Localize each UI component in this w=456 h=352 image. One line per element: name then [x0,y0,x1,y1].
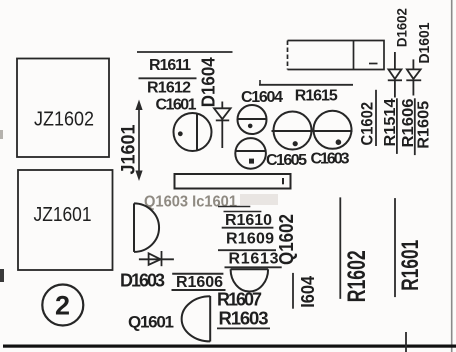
svg-text:JZ1601: JZ1601 [34,204,92,226]
connector JZ1601 [18,170,113,270]
svg-text:R1612: R1612 [147,80,191,97]
svg-text:2: 2 [55,291,70,321]
connector I604 label [292,273,294,309]
svg-text:R1609: R1609 [226,231,274,248]
capacitor C1605 [235,138,266,169]
diode D1604 [214,102,231,149]
svg-text:R1602: R1602 [343,250,371,302]
resistor R1612 label [139,77,197,79]
diode D1603 [139,251,174,266]
svg-text:R1607: R1607 [217,290,262,310]
svg-text:C1604: C1604 [241,89,283,106]
transistor Q1602 [231,269,269,291]
svg-text:R1605: R1605 [416,101,433,149]
svg-text:C1603: C1603 [311,151,350,168]
svg-text:D1601: D1601 [416,23,433,64]
svg-text:R1601: R1601 [397,240,424,291]
svg-text:R1610: R1610 [225,212,272,229]
svg-text:Q1601: Q1601 [128,313,174,332]
svg-text:R1603: R1603 [219,308,269,329]
capacitor C1605b big circle [274,112,312,150]
svg-text:Q1603 Ic1601: Q1603 Ic1601 [144,194,237,211]
resistor R1610 label [218,206,250,208]
page marker 2 [42,285,83,326]
transistor Q1601 [182,296,211,342]
resistor R1601 label [394,198,396,297]
svg-text:R1611: R1611 [149,57,191,74]
svg-text:C1601: C1601 [156,97,197,114]
svg-text:JZ1602: JZ1602 [34,109,94,131]
resistor R1611 label [137,51,233,53]
svg-text:R1606: R1606 [176,274,223,291]
module box top right [288,41,385,70]
svg-text:C1605: C1605 [266,152,307,169]
svg-text:I604: I604 [298,276,318,308]
resistor R1606 label [172,273,223,275]
svg-text:J1601: J1601 [119,124,140,174]
diode D1602 [388,52,402,98]
svg-text:R1615: R1615 [295,88,338,105]
svg-text:C1602: C1602 [359,102,377,146]
chord through C1605b and C1603 [272,130,353,132]
connector JZ1602 [17,59,109,158]
svg-text:D1603: D1603 [120,271,165,291]
capacitor C1603 [314,111,352,149]
capacitor C1601 [174,113,212,151]
IC1601 rectangle [175,174,291,189]
svg-text:D1604: D1604 [199,57,219,107]
transistor Q1603 [134,203,159,252]
wire bottom right [405,332,407,352]
resistor R1602 label [339,197,341,299]
capacitor C1604 [238,105,267,134]
svg-text:R1613: R1613 [229,251,279,268]
jumper J1601 arrow [135,100,142,182]
svg-text:Q1602: Q1602 [276,214,298,265]
svg-text:D1602: D1602 [394,8,410,47]
diode D1601 [406,59,421,95]
resistor R1615 label [259,84,353,86]
